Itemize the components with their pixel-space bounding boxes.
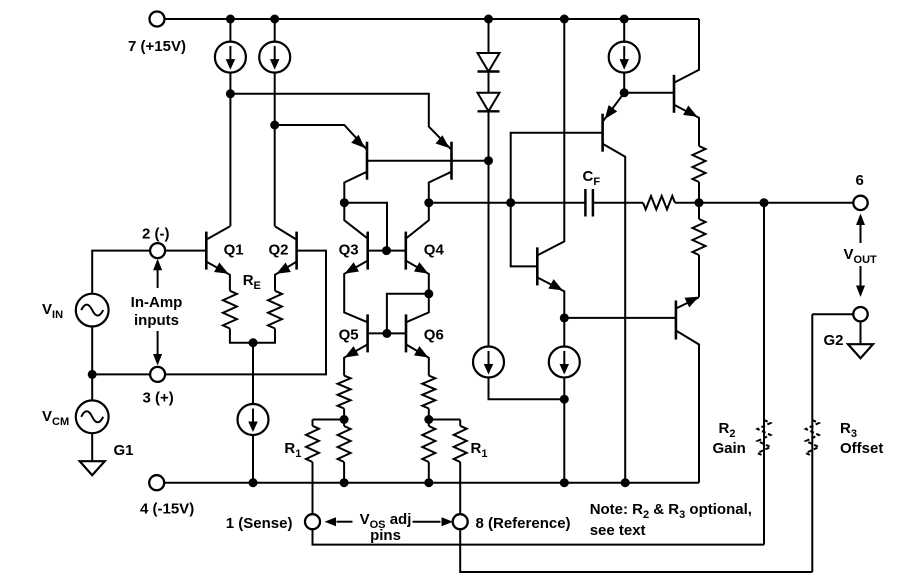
label R1 left <box>284 440 301 460</box>
transistor Q10 collector <box>676 331 699 483</box>
wire I1 to Q1 collector <box>229 73 231 227</box>
wire pin3 to Q2 base <box>165 251 326 375</box>
transistor Q6 base bar <box>405 314 408 352</box>
current source I3 <box>238 404 269 435</box>
wire pin 8 to R3 <box>460 529 812 572</box>
label G1 <box>114 442 134 459</box>
resistor output lower <box>693 203 706 255</box>
transistor Q1 base bar <box>205 232 208 270</box>
transistor Q3 emitter <box>344 261 368 323</box>
svg-text:R1: R1 <box>471 440 488 460</box>
diode D2 <box>478 93 500 112</box>
wire I3 to -15V rail <box>252 435 254 483</box>
node Q5/Q6 base junction <box>382 329 391 338</box>
node Q1 collector junction <box>226 89 235 98</box>
emitter arrow Q1 <box>214 263 228 274</box>
current source I4 <box>473 347 504 378</box>
junction I3 / -15V rail <box>249 478 258 487</box>
capacitor CF <box>585 189 593 217</box>
label RE <box>243 272 261 292</box>
resistor output upper <box>693 146 706 182</box>
label VOS adj pins <box>360 511 412 544</box>
emitter arrow PNP A1 <box>351 135 365 148</box>
node Q2 collector junction <box>270 121 279 130</box>
wire I6 to -15V rail <box>563 378 565 483</box>
transistor Q5 base bar <box>366 314 369 352</box>
current source I5 <box>609 42 640 73</box>
annotation arrow VOUT down <box>856 266 865 297</box>
node second stage input junction <box>506 198 515 207</box>
label G2 <box>824 332 844 349</box>
transistor PNP A1 base bar <box>366 142 369 180</box>
pin G2 terminal <box>853 307 867 321</box>
svg-text:Q1: Q1 <box>224 242 244 259</box>
transistor Q8 base bar <box>601 114 604 152</box>
annotation arrow to pin 2 <box>153 259 162 288</box>
label In-Amp inputs <box>131 294 183 329</box>
wire I4 to tail node <box>489 378 565 400</box>
svg-text:3 (+): 3 (+) <box>143 390 174 407</box>
transistor Q9 emitter <box>674 105 699 146</box>
pin 2 terminal <box>150 243 165 258</box>
transistor Q10 emitter <box>676 297 699 308</box>
transistor Q3 base bar <box>366 232 369 270</box>
wire -15V bottom rail <box>164 482 699 484</box>
transistor Q10 base bar <box>675 301 678 340</box>
node left cascode junction <box>340 198 349 207</box>
junction top rail / diode string <box>484 15 493 24</box>
node output emitter junction <box>695 198 704 207</box>
wire to R1 tap left <box>343 409 345 427</box>
source VCM <box>76 400 109 433</box>
svg-text:see text: see text <box>590 522 646 539</box>
wire pin2 to Q1 base <box>165 250 206 252</box>
label Q6 <box>424 327 444 344</box>
annotation arrow to pin 8 <box>413 517 454 526</box>
junction bases / diode string <box>484 156 493 165</box>
transistor PNP A2 collector <box>429 172 452 203</box>
transistor Q2 emitter <box>275 262 297 291</box>
wire Q3/Q4 base line <box>368 250 406 252</box>
wire junction to pin3 <box>92 373 150 375</box>
transistor Q8 emitter <box>603 93 625 122</box>
wire tap to R1 right <box>429 419 460 421</box>
transistor Q5 emitter <box>344 344 368 375</box>
wire driver node to Q9 base <box>624 92 674 94</box>
svg-text:8 (Reference): 8 (Reference) <box>476 515 571 532</box>
node Q4 emitter junction <box>424 289 433 298</box>
label Q2 <box>269 242 289 259</box>
svg-text:2 (-): 2 (-) <box>142 226 170 243</box>
svg-text:Q2: Q2 <box>269 242 289 259</box>
source VIN <box>76 294 109 327</box>
wire to -15V rail right <box>428 462 430 483</box>
label Q4 <box>424 242 445 259</box>
wire Q1 collector to PNP A2 emitter <box>230 94 451 150</box>
svg-text:4 (-15V): 4 (-15V) <box>140 501 194 518</box>
wire I2 to Q2 collector <box>274 73 276 227</box>
junction Q8 collector / -15V rail <box>621 478 630 487</box>
svg-text:inputs: inputs <box>134 312 179 329</box>
node R1 tap left <box>340 415 349 424</box>
label Q3 <box>339 242 359 259</box>
current source I6 <box>549 347 580 378</box>
label CF <box>583 168 601 188</box>
resistor R3 optional <box>806 420 819 456</box>
transistor Q9 collector <box>674 19 699 83</box>
wire Q2 collector to PNP A1 emitter <box>275 125 367 150</box>
wire tap to R1 left <box>313 419 345 421</box>
wire rail to I1 <box>229 19 231 42</box>
junction top rail / I5 <box>620 15 629 24</box>
wire feedback column R3 <box>811 314 813 572</box>
svg-text:R3: R3 <box>840 420 857 440</box>
svg-text:Gain: Gain <box>713 440 746 457</box>
label Q5 <box>339 327 359 344</box>
transistor Q4 emitter <box>406 261 429 323</box>
wire G2 to R3 column <box>812 313 853 315</box>
wire D2 to bias node <box>488 111 490 346</box>
node VIN/VCM/pin3 junction <box>88 370 97 379</box>
label note optional <box>590 501 752 539</box>
node Q7 emitter junction <box>560 313 569 322</box>
svg-text:G2: G2 <box>824 332 844 349</box>
transistor Q4 collector <box>406 203 429 239</box>
wire pin 1 to R2 <box>313 529 765 544</box>
label pin 2 (-) <box>142 226 170 243</box>
label Q1 <box>224 242 244 259</box>
pin 3 terminal <box>150 367 165 382</box>
svg-text:pins: pins <box>370 527 401 544</box>
junction top rail / I1 <box>226 15 235 24</box>
wire RO to output node <box>675 202 853 204</box>
wire rail to I5 <box>623 19 625 42</box>
pin 7 terminal <box>150 12 165 27</box>
label VIN <box>42 301 63 321</box>
transistor Q2 base bar <box>295 232 298 270</box>
wire to -15V rail left <box>343 462 345 483</box>
node right cascode junction <box>424 198 433 207</box>
pin 4 terminal <box>149 475 164 490</box>
transistor Q9 base bar <box>673 75 676 113</box>
junction right chain / -15V rail <box>424 478 433 487</box>
transistor Q3 collector <box>344 203 367 239</box>
junction left chain / -15V rail <box>340 478 349 487</box>
wire pin2 net <box>92 251 150 294</box>
wire PNP pair base line <box>367 160 489 162</box>
junction Q7 chain / -15V rail <box>560 478 569 487</box>
resistor R1 left <box>306 420 319 463</box>
resistor R1 right <box>454 420 467 463</box>
ground G1 <box>80 461 105 475</box>
label VCM <box>42 408 69 428</box>
emitter arrow Q2 <box>276 263 290 274</box>
wire resistor to Q10 emitter <box>698 255 700 297</box>
transistor Q2 collector <box>275 226 297 239</box>
wire resistor to output node <box>698 182 700 203</box>
svg-text:Q6: Q6 <box>424 327 444 344</box>
resistor RO <box>643 196 675 209</box>
current source I2 <box>259 42 290 73</box>
emitter arrow PNP A2 <box>436 135 450 148</box>
node tail junction <box>249 338 258 347</box>
label pin 4 (-15V) <box>140 501 194 518</box>
wire feedback column R2 <box>763 203 765 545</box>
annotation arrow to pin 3 <box>153 331 162 366</box>
svg-text:7 (+15V): 7 (+15V) <box>128 38 186 55</box>
current source I1 <box>215 42 246 73</box>
ground G2 symbol <box>848 344 873 358</box>
transistor Q6 emitter <box>406 344 429 375</box>
svg-text:Offset: Offset <box>840 440 883 457</box>
label pin 1 (Sense) <box>226 515 293 532</box>
transistor Q1 collector <box>206 226 230 239</box>
wire R1 left to pin 1 <box>312 462 314 514</box>
svg-text:VIN: VIN <box>42 301 63 321</box>
wire Q4 emitter to Q5/Q6 bases <box>387 294 429 334</box>
emitter arrow Q4 <box>414 262 428 273</box>
wire D1 to D2 <box>488 72 490 93</box>
annotation arrow VOUT up <box>856 214 865 244</box>
wire RE right to tail <box>253 329 275 343</box>
svg-text:1 (Sense): 1 (Sense) <box>226 515 293 532</box>
svg-text:Note: R2 & R3 optional,: Note: R2 & R3 optional, <box>590 501 752 521</box>
svg-text:G1: G1 <box>114 442 134 459</box>
resistor RE right <box>268 291 282 329</box>
transistor PNP A1 collector <box>344 172 367 203</box>
junction top rail / I2 <box>270 15 279 24</box>
svg-text:R2: R2 <box>719 420 736 440</box>
svg-text:6: 6 <box>856 172 864 189</box>
wire Q7 emitter to I6 <box>563 318 565 347</box>
emitter arrow Q9 <box>683 106 697 117</box>
wire I5 to driver node <box>623 73 625 93</box>
wire Q10 base line <box>564 317 676 319</box>
resistor lower right <box>422 426 435 462</box>
label R2 Gain <box>713 420 746 457</box>
junction top rail / Q7 collector <box>560 15 569 24</box>
resistor R2 optional <box>758 420 771 456</box>
node driver bias junction <box>620 88 629 97</box>
wire G2 to ground <box>860 321 862 344</box>
wire Q5/Q6 base line <box>368 332 406 334</box>
svg-text:VCM: VCM <box>42 408 69 428</box>
svg-text:R1: R1 <box>284 440 301 460</box>
pin 1 terminal <box>305 514 320 529</box>
transistor Q8 collector <box>603 144 626 483</box>
wire main node to CF <box>429 202 586 204</box>
svg-text:RE: RE <box>243 272 261 292</box>
emitter arrow Q8 <box>605 105 617 119</box>
wire rail to I2 <box>274 19 276 42</box>
label pin 6 <box>856 172 864 189</box>
emitter arrow Q10 <box>685 297 700 308</box>
svg-text:Q4: Q4 <box>424 242 445 259</box>
transistor Q7 base bar <box>536 247 539 285</box>
emitter arrow Q6 <box>414 346 428 357</box>
wire cascode node to bases <box>344 203 387 251</box>
wire to R1 tap right <box>428 409 430 427</box>
wire R1 right to pin 8 <box>459 462 461 514</box>
svg-text:In-Amp: In-Amp <box>131 294 183 311</box>
transistor Q1 emitter <box>206 262 230 291</box>
resistor Q6 degeneration <box>422 376 435 409</box>
svg-text:Q3: Q3 <box>339 242 359 259</box>
emitter arrow Q3 <box>345 262 359 273</box>
emitter arrow Q7 <box>548 279 562 290</box>
wire +15V top rail <box>165 18 700 20</box>
emitter arrow Q5 <box>345 346 359 357</box>
wire CF to RO <box>593 202 643 204</box>
transistor Q7 emitter <box>537 277 564 318</box>
node R1 tap right <box>424 415 433 424</box>
label R3 Offset <box>840 420 883 457</box>
resistor Q5 degeneration <box>338 376 351 409</box>
label R1 right <box>471 440 488 460</box>
transistor Q7 collector <box>537 19 564 255</box>
label pin 7 (+15V) <box>128 38 186 55</box>
svg-text:CF: CF <box>583 168 601 188</box>
pin 8 terminal <box>453 514 468 529</box>
wire VCM to ground G1 <box>91 433 93 461</box>
pin 6 terminal <box>853 196 867 210</box>
transistor Q4 base bar <box>404 232 407 270</box>
wire tail to I3 <box>252 343 254 404</box>
node I4/I6 junction <box>560 395 569 404</box>
annotation arrow to pin 1 <box>325 517 353 526</box>
resistor lower left <box>338 426 351 462</box>
label pin 8 (Reference) <box>476 515 571 532</box>
svg-text:Q5: Q5 <box>339 327 359 344</box>
node Q3/Q4 base junction <box>382 246 391 255</box>
wire second stage input net <box>511 133 603 267</box>
diode D1 <box>478 53 500 72</box>
svg-text:VOUT: VOUT <box>844 246 878 266</box>
resistor RE left <box>223 291 237 329</box>
label VOUT <box>844 246 878 266</box>
wire rail to D1 <box>488 19 490 53</box>
wire RE left to tail <box>230 329 253 343</box>
transistor PNP A2 base bar <box>450 142 453 180</box>
wire VIN to VCM <box>91 327 93 401</box>
node feedback junction <box>760 198 769 207</box>
label pin 3 (+) <box>143 390 174 407</box>
